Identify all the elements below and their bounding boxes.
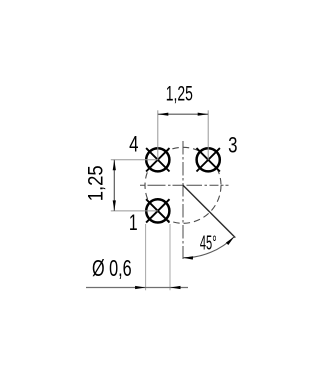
dim text 1,25 horizontal (166, 81, 193, 105)
left dimension line 1,25 (113, 160, 115, 211)
connector body outline (dashed pitch circle) (145, 147, 221, 223)
pin label 4 (129, 132, 138, 157)
extension line up from pin 4 (157, 110, 159, 160)
svg-text:4: 4 (129, 132, 138, 157)
svg-text:1,25: 1,25 (84, 165, 107, 201)
pin hole 4 (146, 148, 169, 171)
extension line left from pin 4 (111, 159, 158, 161)
svg-text:3: 3 (228, 133, 237, 158)
pin hole 1 (146, 199, 169, 222)
arrow right (top dim) (198, 113, 209, 116)
pin hole 3 (197, 148, 220, 171)
extension line down right of hole 1 (169, 224, 171, 290)
pin label 3 (228, 133, 237, 158)
svg-text:1,25: 1,25 (166, 81, 193, 105)
extension line left from pin 1 (111, 210, 158, 212)
svg-text:45°: 45° (200, 232, 217, 254)
vertical centerline (182, 141, 184, 259)
diameter text 0,6 (92, 256, 132, 282)
bottom dimension line diameter 0,6 (86, 287, 188, 289)
arrow left (top dim) (158, 113, 169, 116)
pin label 1 (129, 211, 138, 236)
svg-text:Ø 0,6: Ø 0,6 (92, 256, 132, 282)
extension line up from pin 3 (207, 110, 209, 160)
arrow pointing right at left ext (bottom dim) (135, 286, 146, 289)
top dimension line 1,25 (158, 113, 208, 115)
dim text 1,25 vertical (84, 165, 107, 201)
45 degree reference line (183, 185, 235, 237)
arc arrow at 45 line (226, 237, 234, 245)
angle text 45 deg (200, 232, 217, 254)
45 degree dimension arc (183, 237, 234, 258)
arrow down (left dim) (113, 200, 116, 211)
svg-text:1: 1 (129, 211, 138, 236)
extension line down left of hole 1 (145, 224, 147, 290)
arc arrow at vertical line (183, 256, 193, 259)
arrow up (left dim) (113, 160, 116, 171)
horizontal centerline (140, 184, 229, 186)
arrow pointing left at right ext (bottom dim) (170, 286, 181, 289)
